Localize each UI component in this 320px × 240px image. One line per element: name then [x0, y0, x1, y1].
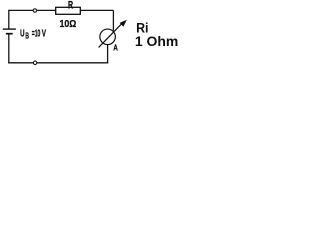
- wire bottom horizontal: [8, 62, 108, 64]
- svg-text:B: B: [25, 32, 29, 41]
- resistor R box: [56, 7, 81, 14]
- wire top horizontal: [8, 9, 113, 11]
- wire right vertical lower: [107, 45, 109, 64]
- wire left vertical upper: [8, 10, 10, 28]
- ammeter A circle: [100, 29, 116, 45]
- svg-text:A: A: [113, 43, 118, 53]
- svg-text:V: V: [42, 29, 46, 40]
- node terminal bottom: [33, 61, 37, 65]
- wire left vertical lower: [8, 34, 10, 63]
- svg-text:10Ω: 10Ω: [60, 19, 77, 30]
- svg-text:U: U: [20, 29, 24, 40]
- node terminal top: [33, 9, 36, 12]
- wire right vertical upper: [112, 10, 114, 30]
- battery UB short plate: [6, 33, 13, 35]
- svg-text:R: R: [68, 0, 73, 12]
- ammeter needle arrow: [99, 23, 123, 47]
- svg-text:0: 0: [37, 29, 40, 40]
- battery UB long plate: [3, 28, 16, 30]
- svg-text:1 Ohm: 1 Ohm: [135, 34, 178, 49]
